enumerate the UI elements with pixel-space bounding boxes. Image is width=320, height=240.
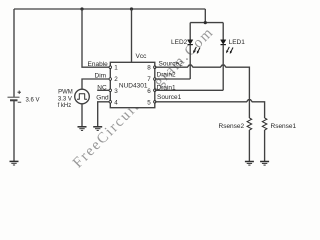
pin 8 bbox=[147, 65, 156, 72]
wire: Source1 net pin5 right with hop, down to Rsense1 bbox=[155, 100, 265, 118]
wire: Rsense2 to ground bbox=[248, 130, 250, 161]
resistor Rsense1 bbox=[262, 118, 267, 130]
svg-text:Enable: Enable bbox=[88, 61, 109, 68]
IC U1 NUD4301 body bbox=[110, 62, 155, 107]
battery plus sign bbox=[18, 91, 22, 95]
ground (Rsense1) bbox=[260, 162, 269, 166]
pin 1 bbox=[109, 65, 118, 72]
svg-text:5: 5 bbox=[147, 99, 151, 106]
svg-text:Dim: Dim bbox=[95, 73, 107, 80]
battery BT1 3.6 V bbox=[8, 97, 20, 100]
LED LED2 bbox=[188, 40, 193, 45]
svg-text:Rsense1: Rsense1 bbox=[271, 123, 297, 130]
svg-text:8: 8 bbox=[147, 65, 151, 72]
pin 7 bbox=[147, 76, 156, 83]
ground (Rsense2) bbox=[245, 162, 254, 166]
wire: NC stub bbox=[97, 89, 109, 91]
LED2 light arrows bbox=[193, 47, 200, 54]
LED LED1 bbox=[221, 40, 226, 45]
wire: battery positive vertical bbox=[13, 9, 15, 97]
pin 2 bbox=[109, 76, 118, 83]
svg-text:NUD4301: NUD4301 bbox=[119, 82, 148, 89]
svg-text:3.3 V: 3.3 V bbox=[58, 96, 72, 102]
svg-text:Source2: Source2 bbox=[159, 61, 184, 68]
wire: LED2 anode vertical bbox=[189, 23, 191, 40]
wire: PWM source bottom to ground bbox=[81, 104, 83, 127]
svg-text:Source1: Source1 bbox=[157, 94, 182, 101]
svg-text:6: 6 bbox=[147, 88, 151, 95]
wire: Gnd net (pin 4 left then down to ground) bbox=[98, 102, 110, 127]
wire: LED1 anode vertical bbox=[222, 23, 224, 40]
svg-text:LED2: LED2 bbox=[171, 39, 188, 46]
wire: Vcc vertical from rail to chip top bbox=[131, 9, 133, 62]
wire: LED branch drop from rail bbox=[204, 9, 206, 23]
pin 6 bbox=[147, 88, 156, 95]
svg-text:LED1: LED1 bbox=[229, 39, 246, 46]
svg-text:3: 3 bbox=[114, 88, 118, 95]
pin 4 bbox=[109, 99, 118, 106]
ground (chip Gnd pin) bbox=[93, 127, 102, 131]
wire: LED1 cathode down to Drain1 row (crosses Source2) bbox=[222, 45, 224, 91]
svg-text:4: 4 bbox=[114, 99, 118, 106]
wire: Dim net (pin 2 to PWM source top) bbox=[82, 79, 109, 89]
svg-text:Vcc: Vcc bbox=[136, 53, 148, 60]
svg-text:1: 1 bbox=[114, 65, 118, 72]
svg-text:2: 2 bbox=[114, 76, 118, 83]
svg-text:3.6 V: 3.6 V bbox=[26, 97, 40, 103]
wire: top supply rail from battery + to LED branch bbox=[14, 8, 205, 10]
PWM source V1 bbox=[75, 89, 90, 104]
wire: LED anode rail bbox=[190, 22, 223, 24]
wire: LED2 cathode down to Drain2 row (crosses Source2) bbox=[189, 45, 191, 79]
pin 5 bbox=[147, 99, 156, 106]
svg-text:Drain2: Drain2 bbox=[157, 72, 177, 79]
watermark FreeCircuitDiagram.Com bbox=[70, 24, 217, 171]
ground (PWM source) bbox=[78, 127, 87, 131]
svg-text:7: 7 bbox=[147, 76, 151, 83]
svg-text:Drain1: Drain1 bbox=[157, 84, 177, 91]
pin 3 bbox=[109, 88, 118, 95]
svg-text:f kHz: f kHz bbox=[58, 103, 72, 109]
junction dot at Vcc tap bbox=[130, 7, 133, 10]
wire: Drain2 net pin7 to LED2 bbox=[155, 78, 190, 80]
wire: Source2 net pin8 right with hops, down to Rsense2 bbox=[155, 65, 250, 118]
junction dot LED rail bbox=[204, 21, 207, 24]
LED1 light arrows bbox=[226, 47, 233, 54]
svg-text:PWM: PWM bbox=[58, 90, 73, 96]
wire: Drain1 net pin6 to LED1 bbox=[155, 89, 223, 91]
svg-text:Gnd: Gnd bbox=[96, 94, 109, 101]
ground (battery) bbox=[10, 161, 19, 165]
battery minus sign bbox=[18, 101, 22, 103]
label PWM 3.3 V f kHz bbox=[58, 90, 73, 110]
svg-text:Rsense2: Rsense2 bbox=[219, 123, 245, 130]
wire: Rsense1 to ground bbox=[264, 130, 266, 161]
wire: Enable net (rail down to pin 1) bbox=[82, 9, 109, 67]
resistor Rsense2 bbox=[247, 118, 252, 130]
wire: battery negative down to ground bbox=[13, 101, 15, 161]
junction dot at enable tap bbox=[80, 7, 83, 10]
